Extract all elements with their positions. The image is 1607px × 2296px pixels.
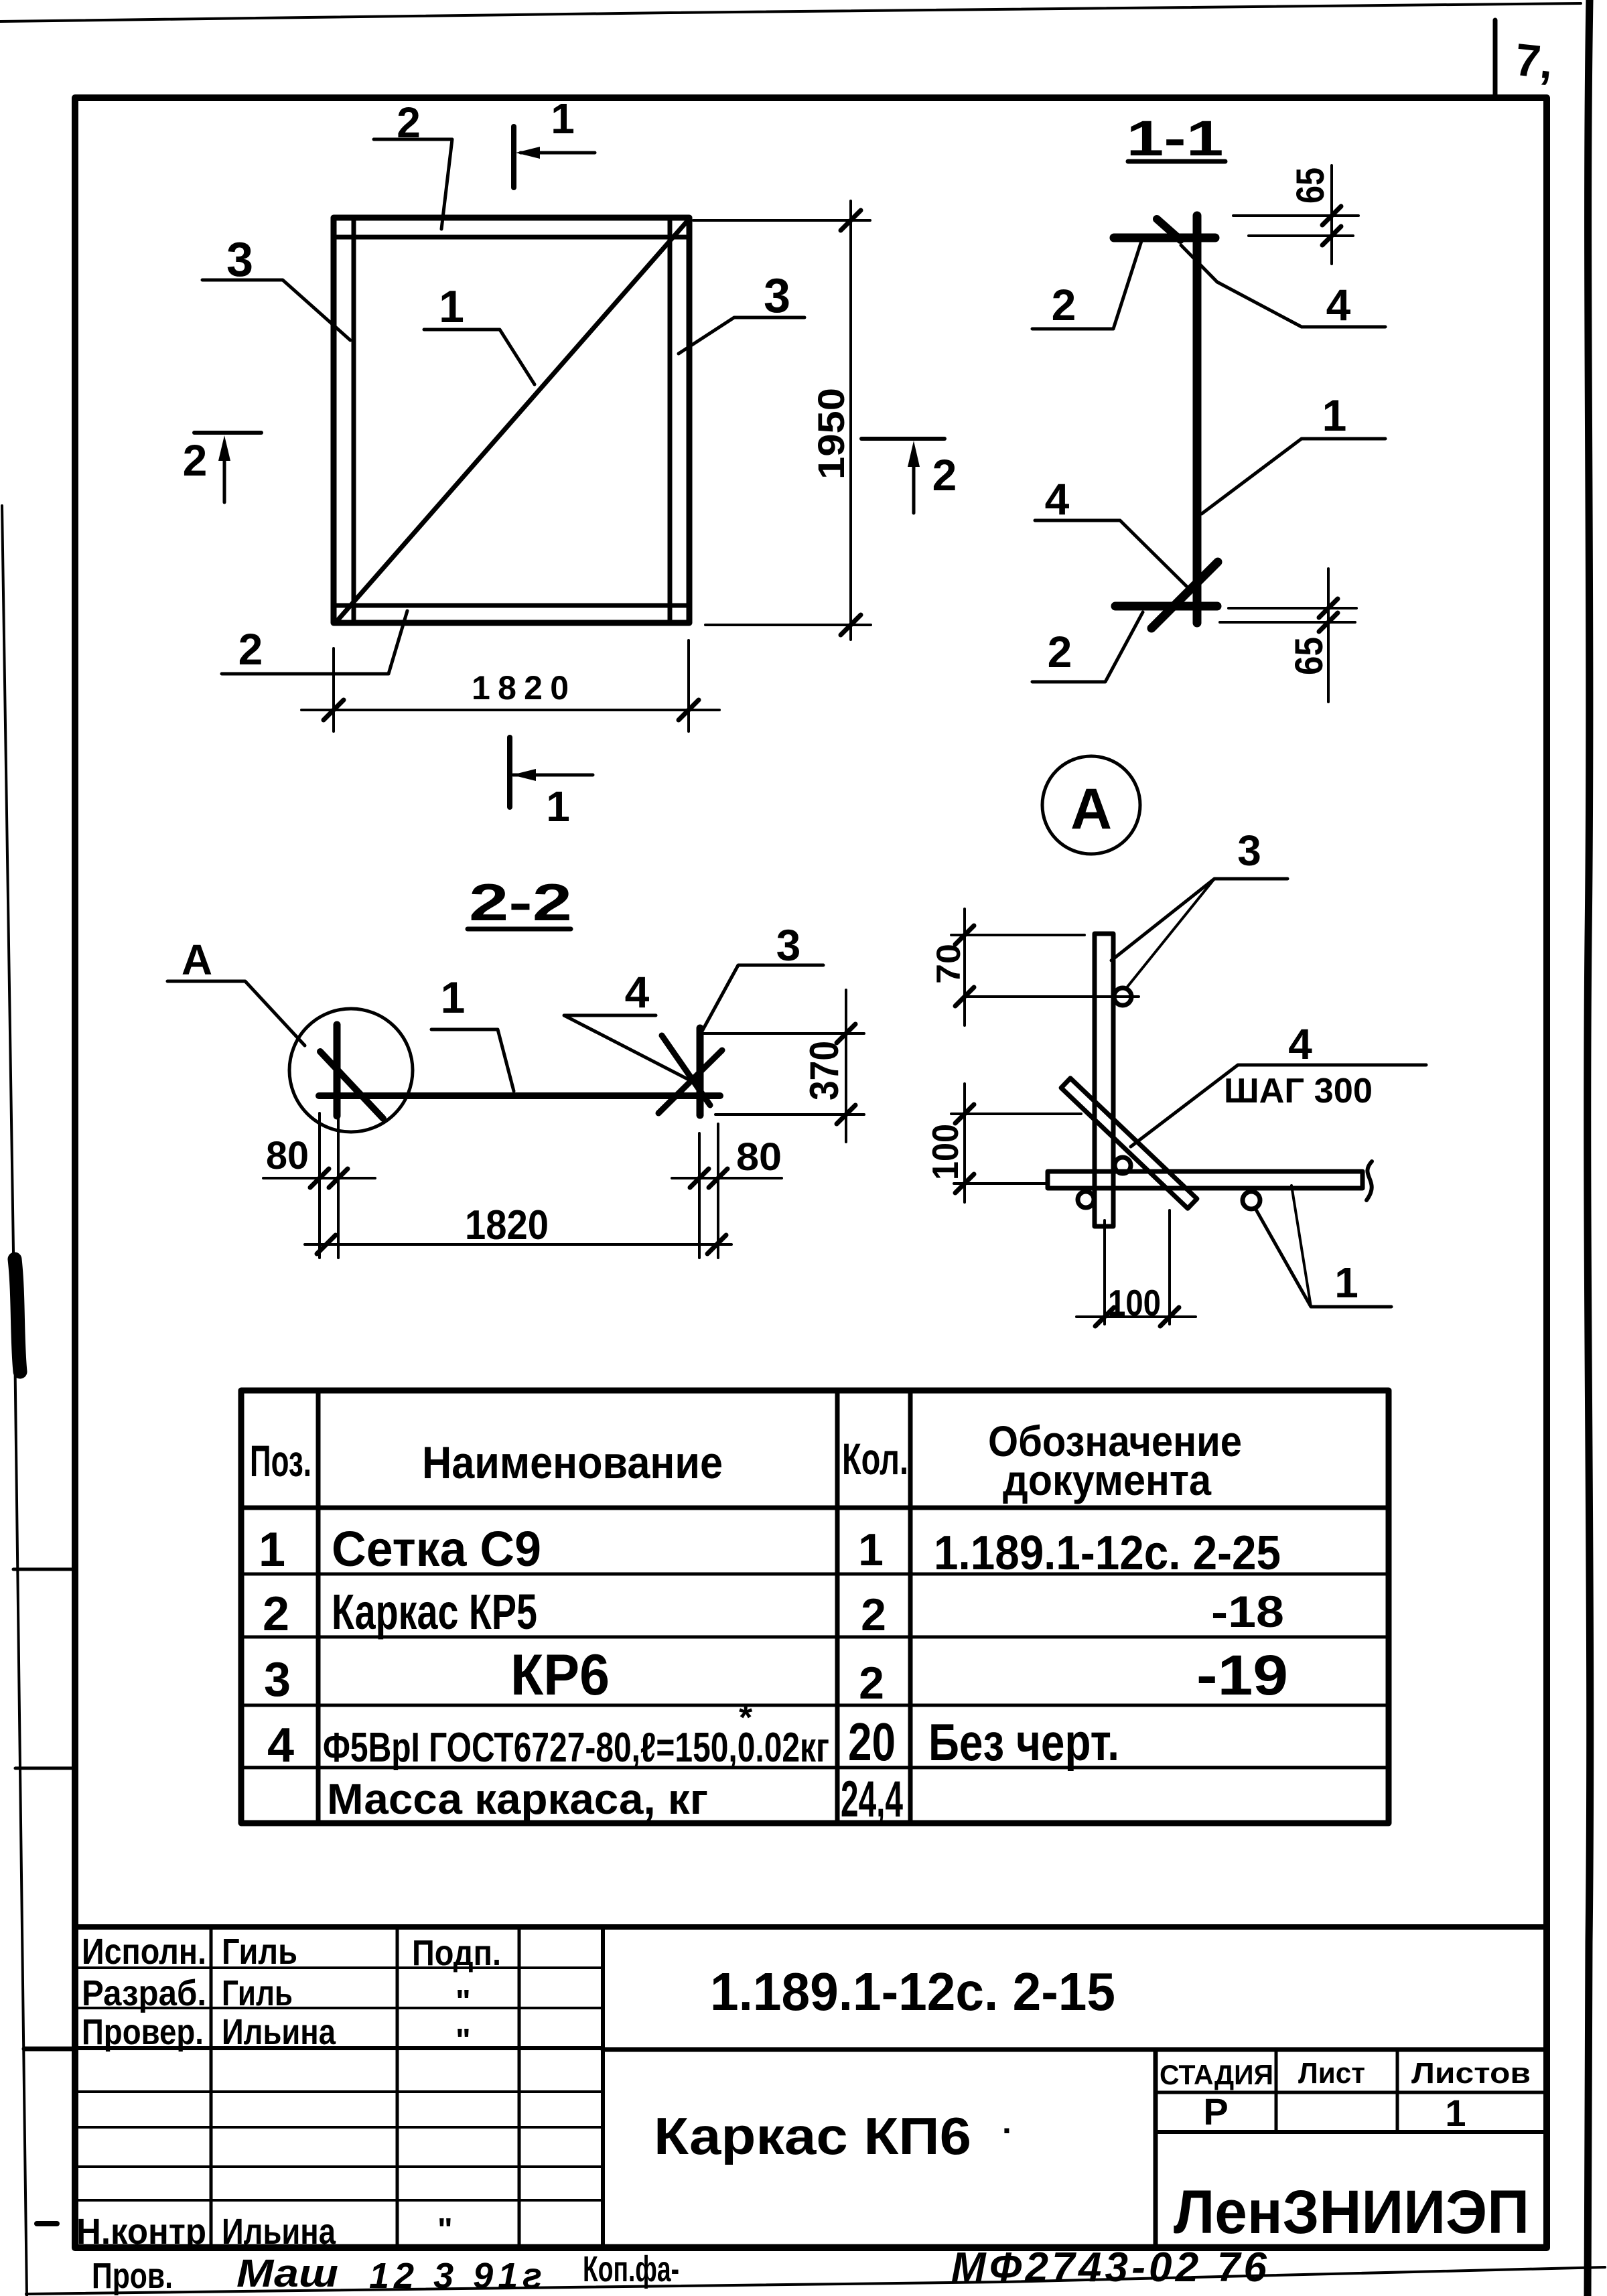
svg-text:1.189.1-12с. 2-15: 1.189.1-12с. 2-15 [710,1962,1115,2021]
dimension 65 bottom [1229,607,1356,609]
section mark 1 top [511,127,516,188]
wire break squiggle [1367,1161,1372,1200]
svg-text:3: 3 [764,269,790,323]
dimension 100 left [963,1084,966,1202]
left margin tick 3 (title block row extension) [24,2047,76,2052]
svg-text:*: * [739,1699,753,1737]
svg-text:2-2: 2-2 [469,873,572,932]
svg-text:Ф5ВрI ГОСТ6727-80,ℓ=150,0.02кг: Ф5ВрI ГОСТ6727-80,ℓ=150,0.02кг [323,1725,829,1771]
frame inner line bottom [334,603,689,608]
frame inner line right [668,218,673,623]
svg-text:1950: 1950 [810,388,852,480]
frame inner line left [352,218,356,623]
scan artifact ink blob left edge [15,1259,20,1372]
left margin tick 1 [13,1568,74,1571]
svg-text:3: 3 [1237,827,1261,875]
svg-text:Н.контр: Н.контр [76,2212,206,2252]
svg-text:Подп.: Подп. [412,1933,501,1973]
svg-text:.: . [1002,2103,1011,2141]
svg-text:24,4: 24,4 [841,1771,903,1828]
svg-text:Коп.фа-: Коп.фа- [583,2249,679,2289]
svg-text:Кол.: Кол. [842,1434,908,1484]
svg-text:Сетка С9: Сетка С9 [332,1521,541,1577]
svg-text:3: 3 [264,1653,291,1707]
scan artifact bottom edge line [26,2267,1605,2294]
weld dot middle [1115,1157,1131,1173]
left joint slash [320,1052,383,1119]
doc number separator line [603,2048,1547,2052]
svg-text:2: 2 [183,435,208,485]
column line 4 [601,1927,605,2247]
svg-text:документа: документа [1003,1456,1211,1504]
row line 3 [241,1704,1389,1707]
svg-text:Ильина: Ильина [222,2212,336,2252]
frame outer rectangle [334,218,689,623]
svg-text:Масса каркаса, кг: Масса каркаса, кг [327,1775,708,1823]
svg-text:2: 2 [932,450,957,500]
dimension 100 bottom [1103,1220,1106,1324]
svg-text:1.189.1-12с. 2-25: 1.189.1-12с. 2-25 [934,1526,1281,1580]
svg-text:7,: 7, [1513,34,1555,89]
svg-text:1-1: 1-1 [1127,111,1224,166]
svg-text:-18: -18 [1211,1587,1284,1636]
page number separator [1493,20,1498,98]
top bar (КР5) [1114,234,1215,242]
svg-text:1: 1 [1445,2092,1466,2134]
diagonal bar (поз.4) outline [1061,1078,1197,1208]
frame inner line top [334,235,689,240]
svg-text:3: 3 [776,920,801,970]
svg-text:СТАДИЯ: СТАДИЯ [1160,2059,1273,2090]
svg-text:100: 100 [924,1124,966,1180]
dimension 1820 plan [332,648,335,731]
svg-text:A: A [182,936,212,984]
right joint slash 1 [662,1035,710,1105]
svg-text:1820: 1820 [472,669,569,707]
title block bottom border [75,2244,1547,2250]
column line Кол right [908,1390,913,1823]
svg-text:Провер.: Провер. [82,2012,204,2052]
svg-text:Лист: Лист [1298,2057,1365,2090]
detail circle A callout [289,1009,413,1132]
row line 1 [241,1573,1389,1576]
svg-text:65: 65 [1289,167,1332,204]
svg-text:80: 80 [266,1134,309,1177]
svg-text:370: 370 [802,1041,847,1100]
стадия column lines [1275,2050,1278,2132]
svg-text:Поз.: Поз. [250,1436,311,1486]
column line Кол left [835,1390,840,1823]
svg-text:ШАГ 300: ШАГ 300 [1224,1072,1373,1110]
svg-text:": " [437,2212,453,2248]
scan artifact left page edge line [2,506,27,2296]
svg-text:1: 1 [259,1523,285,1577]
left margin dash [37,2221,57,2226]
left joint bar tick [334,1025,341,1116]
svg-text:Каркас КР5: Каркас КР5 [332,1584,537,1640]
weld dot bottom-left [1078,1192,1094,1208]
svg-text:4: 4 [1326,280,1351,330]
svg-text:Пров.: Пров. [92,2256,173,2296]
dimension 1950 [693,219,870,222]
title block top border [75,1924,1547,1930]
svg-text:2: 2 [1052,280,1076,330]
right joint slash 2 [658,1050,722,1113]
svg-text:Гиль: Гиль [222,1973,293,2013]
svg-text:Р: Р [1203,2090,1228,2133]
стадия box left line [1154,2050,1158,2247]
svg-text:Каркас КП6: Каркас КП6 [654,2106,971,2165]
bottom joint slash [1151,562,1218,628]
column line 1 [210,1927,213,2247]
column line 3 [518,1927,521,2247]
row line 4 [241,1766,1389,1770]
svg-text:Исполн.: Исполн. [82,1932,206,1972]
svg-text:1: 1 [1322,390,1347,440]
table outer border [241,1390,1389,1823]
svg-text:Листов: Листов [1411,2057,1531,2090]
left margin tick 2 [15,1767,74,1770]
svg-text:A: A [1070,777,1112,841]
dimension 80 right [698,1133,701,1258]
svg-text:70: 70 [930,944,967,984]
svg-text:2: 2 [1048,627,1072,676]
horizontal wire (Сетка С9) [319,1092,720,1099]
bottom bar (КР5) [1115,602,1217,611]
section mark 2 left [194,431,261,435]
svg-text:ЛенЗНИИЭП: ЛенЗНИИЭП [1174,2178,1529,2246]
svg-text:1: 1 [1334,1259,1358,1307]
svg-text:-19: -19 [1196,1644,1288,1707]
стадия header bottom [1156,2091,1547,2094]
section mark 1 bottom [507,737,512,807]
scan artifact right page edge [1588,0,1590,2296]
section mark 2 right [861,437,945,441]
dimension 80 left [318,1113,321,1258]
svg-text:1: 1 [551,94,575,143]
svg-text:1: 1 [441,973,466,1022]
dimension 1820 [305,1243,731,1246]
dimension 65 top [1233,214,1358,217]
svg-text:2: 2 [859,1658,884,1709]
svg-text:Маш: Маш [236,2252,338,2295]
svg-text:Ильина: Ильина [222,2012,336,2052]
row lines left part [75,1966,603,1969]
detail title circle A [1042,756,1140,854]
svg-text:Гиль: Гиль [222,1932,297,1972]
svg-text:2: 2 [263,1587,289,1641]
svg-text:4: 4 [1288,1020,1312,1068]
column line 2 [396,1927,399,2247]
svg-text:4: 4 [267,1719,294,1772]
svg-text:Наименование: Наименование [422,1437,723,1488]
svg-text:2: 2 [861,1589,886,1640]
right joint bar tick [697,1028,704,1115]
dimension 370 [703,1032,864,1035]
svg-text:1: 1 [439,281,464,332]
horizontal wire С9 (outline) [1048,1171,1363,1188]
svg-text:1: 1 [858,1524,884,1575]
svg-text:1: 1 [546,782,570,831]
svg-text:Разраб.: Разраб. [82,1973,206,2013]
svg-text:80: 80 [736,1135,782,1179]
svg-text:Без черт.: Без черт. [928,1713,1119,1772]
svg-text:65: 65 [1287,637,1331,675]
row line 2 [241,1636,1389,1639]
svg-text:4: 4 [625,967,650,1017]
vertical bar КР6 (outline) [1095,934,1113,1226]
svg-text:4: 4 [1045,474,1070,524]
svg-text:": " [456,1984,471,2019]
стадия values bottom [1156,2130,1547,2134]
weld dot top [1114,988,1131,1005]
svg-text:20: 20 [848,1712,896,1772]
svg-text:2: 2 [238,624,263,674]
svg-text:МФ2743-02 76: МФ2743-02 76 [951,2244,1267,2291]
vertical wire (Сетка С9) [1193,216,1202,623]
svg-text:100: 100 [1108,1282,1161,1323]
header bottom line [241,1506,1389,1510]
svg-text:КР6: КР6 [510,1643,610,1707]
scan artifact top edge line [0,3,1581,21]
svg-text:1820: 1820 [465,1202,549,1248]
dimension 70 [963,909,966,1025]
svg-text:": " [456,2023,471,2058]
diagonal brace (Сетка С9) [338,221,687,620]
weld dot right [1243,1192,1260,1209]
column line Поз [316,1390,321,1823]
top joint slash [1157,219,1180,240]
